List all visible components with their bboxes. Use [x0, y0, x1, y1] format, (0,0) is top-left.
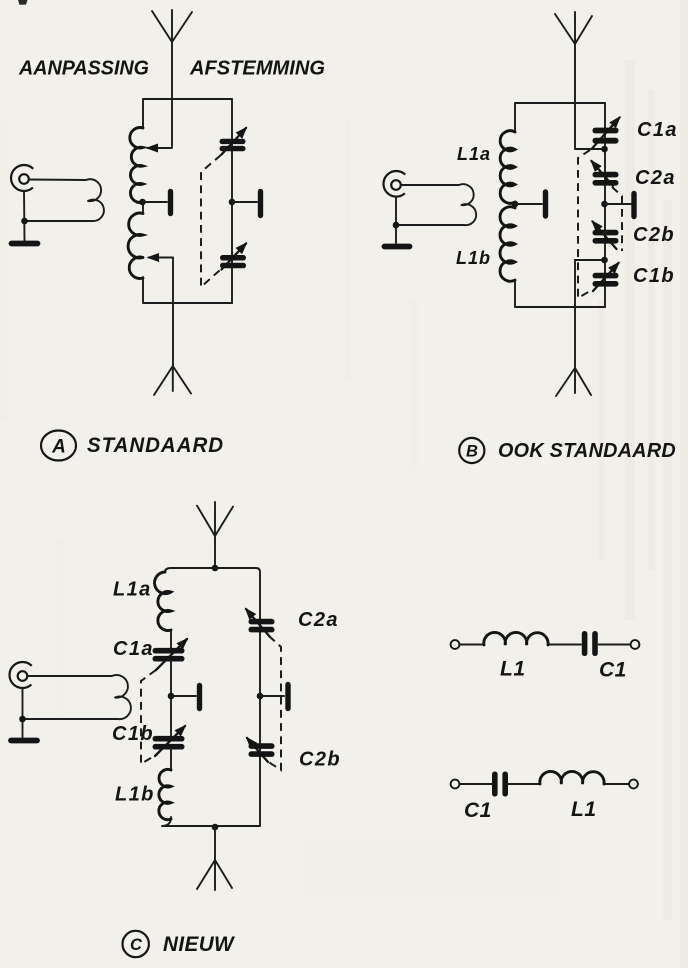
svg-text:C2b: C2b	[633, 224, 675, 246]
coupling link winding (C)	[23, 675, 131, 719]
gang linkage dashed C1 (B)	[578, 150, 590, 298]
variable capacitor top (A) arrow	[222, 128, 247, 155]
wire left branch middle (C)	[170, 661, 172, 736]
variable capacitor C1a (B) arrow	[593, 118, 620, 149]
wire coax shield drop (B)	[395, 197, 397, 243]
variable capacitor C1b (B) arrow	[593, 263, 619, 291]
variable capacitor C2b (C) arrow	[247, 738, 268, 762]
stator plate stub right (A)	[232, 192, 261, 216]
variable capacitor C2b (B) arrow	[593, 222, 617, 250]
gang linkage dashed C1 (C)	[141, 670, 156, 764]
junction node coil tap (A)	[139, 199, 146, 206]
label circle C	[123, 931, 149, 957]
wire feeder jog (B)	[575, 259, 605, 261]
wire top rail left (C)	[165, 568, 215, 572]
wire left branch upper (C)	[170, 630, 172, 648]
wire antenna lead to tap arrow (A)	[148, 42, 173, 148]
svg-text:C1b: C1b	[633, 265, 675, 287]
inductor L1a (C)	[155, 572, 171, 630]
stator plate stub right (C)	[260, 685, 288, 709]
wire left (S2)	[459, 783, 491, 785]
wire right branch (C)	[259, 619, 261, 826]
svg-text:B: B	[466, 443, 478, 461]
wire coax shield drop (C)	[22, 688, 24, 737]
variable capacitor C1b (B) plates	[593, 273, 619, 287]
svg-text:A: A	[51, 437, 66, 458]
junction node top (C)	[212, 565, 219, 572]
gang linkage dashed (A)	[201, 155, 221, 287]
svg-text:NIEUW: NIEUW	[163, 933, 236, 956]
terminal right (S1)	[631, 640, 640, 649]
variable capacitor C2a (B) plates	[593, 172, 619, 186]
svg-text:C2b: C2b	[299, 749, 341, 771]
svg-text:L1b: L1b	[456, 248, 491, 268]
svg-text:C1a: C1a	[113, 638, 154, 660]
antenna symbol (circuit A)	[152, 10, 192, 42]
coax connector outer (A)	[11, 165, 33, 191]
label circle B	[459, 438, 484, 463]
junction node below C1a (B)	[601, 146, 608, 153]
variable capacitor C1b (C) arrow	[155, 726, 185, 756]
wire right branch (A)	[231, 99, 233, 303]
stator plate stub left (C)	[171, 686, 200, 709]
wire top rail right (C)	[215, 568, 260, 619]
inductor L1b (C)	[159, 769, 171, 819]
inductor tapped coil (A)	[128, 128, 143, 279]
stator plate stub right (B)	[605, 194, 635, 217]
variable capacitor top (A) plates	[220, 139, 246, 152]
junction node coax (C)	[19, 716, 26, 723]
wire counterpoise lead (C)	[214, 827, 216, 860]
svg-text:L1b: L1b	[115, 784, 155, 806]
svg-text:L1a: L1a	[113, 579, 152, 601]
inductor L1a (B)	[500, 131, 515, 204]
variable capacitor C1b (C) plates	[153, 736, 185, 750]
wire bottom rail (C)	[162, 817, 260, 826]
inductor L1 (S1)	[484, 632, 548, 645]
svg-text:C1: C1	[464, 799, 492, 822]
svg-text:AANPASSING: AANPASSING	[18, 58, 149, 80]
svg-text:OOK STANDAARD: OOK STANDAARD	[498, 439, 676, 462]
ground (A)	[12, 241, 38, 247]
inductor L1 (S2)	[540, 771, 604, 784]
svg-text:C2a: C2a	[298, 609, 339, 631]
wire antenna lead (B)	[575, 44, 605, 149]
junction node below C2b (B)	[601, 257, 608, 264]
counterpoise fan (C)	[197, 860, 232, 890]
terminal right (S2)	[629, 780, 638, 789]
variable capacitor C2a (B) arrow	[592, 161, 614, 186]
antenna symbol (circuit B)	[555, 12, 592, 44]
wire right branch (B)	[604, 103, 606, 307]
wire coil tap segment (A)	[142, 202, 144, 214]
feeder tap arrow (A)	[149, 257, 174, 259]
junction node coax (B)	[393, 222, 400, 229]
gang linkage dashed C2 (C)	[267, 636, 281, 770]
variable capacitor bottom (A) arrow	[222, 244, 247, 270]
coax connector outer (C)	[10, 662, 32, 688]
svg-text:C2a: C2a	[635, 167, 676, 189]
capacitor C1 (S1) plates	[582, 631, 598, 656]
variable capacitor bottom (A) plates	[220, 255, 246, 268]
wire top rail (B)	[515, 103, 605, 132]
variable capacitor C2a (C) arrow	[246, 609, 270, 637]
wire top rail (A)	[143, 99, 232, 128]
junction node bottom (C)	[212, 824, 219, 831]
junction node right branch (A)	[229, 199, 236, 206]
wire feeder drop (B)	[574, 260, 576, 368]
wire bottom rail (B)	[515, 280, 605, 307]
svg-text:C1: C1	[599, 659, 627, 682]
wire left (S1)	[459, 644, 484, 646]
svg-text:L1a: L1a	[457, 144, 491, 164]
svg-text:L1: L1	[571, 798, 597, 821]
gang linkage dashed C2 (B)	[612, 187, 622, 251]
svg-text:C1b: C1b	[112, 723, 154, 745]
stator plate stub left (A)	[142, 192, 171, 214]
antenna symbol (circuit C)	[197, 502, 233, 536]
variable capacitor C2b (B) plates	[593, 230, 619, 244]
capacitor C1 (S2) plates	[492, 772, 508, 797]
junction node right mid (B)	[601, 201, 608, 208]
variable capacitor C2b (C) plates	[249, 743, 275, 757]
wire antenna lead (C)	[214, 536, 216, 568]
svg-text:AFSTEMMING: AFSTEMMING	[189, 58, 325, 80]
wire right (S1)	[599, 644, 631, 646]
variable capacitor C1a (C) plates	[153, 648, 185, 662]
junction node left mid (C)	[168, 693, 175, 700]
counterpoise fan (B)	[556, 368, 591, 396]
junction node right mid (C)	[257, 693, 264, 700]
inductor L1b (B)	[500, 207, 515, 281]
wire middle (S2)	[509, 783, 541, 785]
wire coil middle segment (B)	[514, 202, 516, 208]
coupling link winding (A)	[25, 179, 104, 221]
ground (C)	[11, 738, 37, 744]
variable capacitor C1a (C) arrow	[156, 639, 187, 670]
ground (B)	[385, 244, 410, 250]
coax connector inner pin (B)	[391, 180, 401, 190]
variable capacitor C1a (B) plates	[593, 128, 619, 144]
terminal left (S2)	[451, 780, 460, 789]
junction node coil tap (B)	[512, 201, 519, 208]
variable capacitor C2a (C) plates	[249, 619, 275, 633]
svg-text:C1a: C1a	[637, 119, 678, 141]
coupling link winding (B)	[396, 184, 476, 225]
wire left branch lower (C)	[170, 750, 172, 770]
svg-text:STANDAARD: STANDAARD	[87, 434, 224, 457]
wire right (S2)	[604, 783, 629, 785]
wire coax shield drop (A)	[23, 191, 26, 241]
wire feeder drop (A)	[172, 258, 174, 367]
label circle A	[41, 431, 76, 461]
svg-text:L1: L1	[500, 658, 526, 681]
terminal left (S1)	[451, 640, 460, 649]
coax connector outer (B)	[384, 171, 406, 197]
junction node coax (A)	[21, 218, 28, 225]
wire bottom rail (A)	[143, 277, 232, 303]
coax connector inner pin (C)	[18, 671, 28, 681]
coax connector inner pin (A)	[19, 174, 29, 184]
counterpoise fan (A)	[154, 366, 191, 395]
wire middle (S1)	[548, 644, 581, 646]
stator plate stub center (B)	[515, 192, 546, 216]
svg-text:C: C	[130, 936, 143, 954]
